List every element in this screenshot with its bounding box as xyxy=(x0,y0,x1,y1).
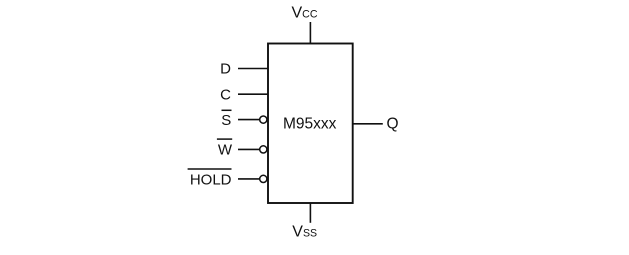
wire D xyxy=(238,68,268,70)
svg-text:Q: Q xyxy=(387,115,399,132)
wire W xyxy=(238,148,260,150)
wire C xyxy=(238,93,268,95)
svg-text:VSS: VSS xyxy=(292,224,317,241)
svg-text:HOLD: HOLD xyxy=(190,171,232,188)
svg-text:C: C xyxy=(220,86,231,103)
label S with overline xyxy=(221,110,231,129)
power VCC pin stub xyxy=(309,22,311,44)
svg-text:W: W xyxy=(218,142,233,159)
wire S xyxy=(238,119,260,121)
svg-text:M95xxx: M95xxx xyxy=(283,116,337,133)
inversion bubble S xyxy=(260,116,267,123)
inversion bubble W xyxy=(260,146,267,153)
label HOLD with overline xyxy=(188,169,232,188)
power VSS pin stub xyxy=(309,203,311,223)
inversion bubble HOLD xyxy=(260,175,267,182)
svg-text:D: D xyxy=(220,61,231,78)
wire HOLD xyxy=(238,178,260,180)
IC box U1 M95xxx xyxy=(268,44,353,204)
label W with overline xyxy=(217,139,233,158)
svg-text:S: S xyxy=(221,112,231,129)
wire Q xyxy=(353,123,383,125)
svg-text:VCC: VCC xyxy=(292,5,318,22)
